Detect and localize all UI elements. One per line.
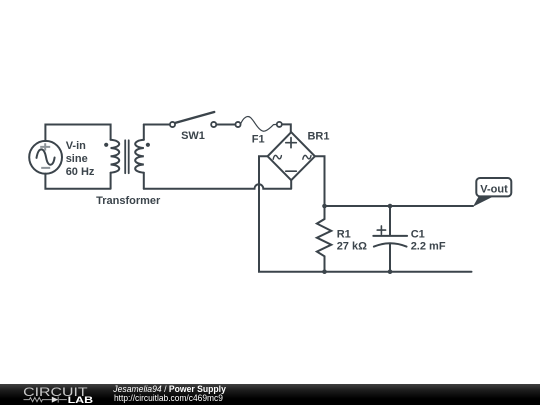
svg-text:LAB: LAB [68, 395, 94, 405]
svg-text:C1: C1 [411, 229, 425, 241]
svg-text:27 kΩ: 27 kΩ [337, 240, 367, 252]
svg-text:R1: R1 [337, 229, 351, 241]
svg-text:BR1: BR1 [307, 131, 329, 143]
svg-text:2.2 mF: 2.2 mF [411, 240, 446, 252]
svg-text:F1: F1 [252, 134, 265, 146]
svg-text:V-out: V-out [480, 183, 508, 195]
svg-text:V-in: V-in [66, 140, 86, 152]
svg-text:http://circuitlab.com/c469mc9: http://circuitlab.com/c469mc9 [114, 393, 223, 403]
svg-text:Transformer: Transformer [96, 195, 161, 207]
svg-text:60 Hz: 60 Hz [66, 166, 95, 178]
svg-text:SW1: SW1 [181, 130, 205, 142]
svg-text:sine: sine [66, 153, 88, 165]
